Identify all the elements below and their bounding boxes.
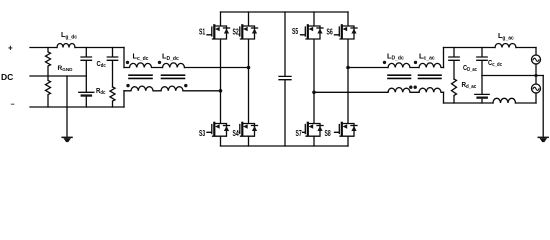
svg-text:Cdc: Cdc <box>97 61 107 69</box>
core bars LD_dc <box>162 75 185 78</box>
inductor Lc_dc top winding <box>124 63 163 68</box>
wire bottom rail left block <box>30 106 124 108</box>
capacitor polarized lower (left) <box>79 76 94 107</box>
svg-text:S3: S3 <box>199 129 206 138</box>
svg-text:S6: S6 <box>327 27 334 36</box>
transistor S2 <box>239 12 257 68</box>
wire bottom DC bus <box>221 145 349 147</box>
wire AC column top corner <box>535 48 537 56</box>
AC source 1 <box>532 55 541 64</box>
node dot junction leg S1 <box>219 89 223 93</box>
node dot junction leg S2 <box>247 66 251 70</box>
svg-text:Lc_dc: Lc_dc <box>133 52 149 62</box>
wire bridge input top <box>185 67 249 69</box>
capacitor Cdc <box>107 48 117 88</box>
inductor LD_dc (right choke) top winding <box>388 63 419 68</box>
svg-text:RGND: RGND <box>58 65 74 72</box>
wire ground stem left <box>66 76 68 136</box>
transistor S4 <box>239 68 257 147</box>
svg-text:LD_dc: LD_dc <box>387 51 404 61</box>
transistor S3 <box>207 91 230 146</box>
wire bridge output top <box>348 67 388 69</box>
svg-text:S2: S2 <box>233 27 240 36</box>
core bars Lc_ac <box>419 75 442 78</box>
svg-text:Rd_ac: Rd_ac <box>462 82 477 91</box>
svg-text:Rdc: Rdc <box>96 88 106 96</box>
resistor RGND <box>46 48 51 77</box>
svg-text:S4: S4 <box>233 129 240 138</box>
node dot Lc_dc top-left <box>126 61 129 64</box>
ground (left) <box>61 137 72 143</box>
inductor Lg_dc <box>57 44 75 48</box>
wire middle rail left block <box>30 75 86 77</box>
inductor Lc_ac top winding <box>419 63 444 68</box>
node dot Lc_ac top-left <box>414 61 417 64</box>
svg-text:CD_ac: CD_ac <box>463 65 477 73</box>
transistor S5 <box>301 12 324 92</box>
transistor S6 <box>335 12 358 68</box>
node dot mid rail / AC column <box>534 74 537 77</box>
wire top rail corner into choke <box>123 48 125 68</box>
wire bottom rail right block <box>444 102 537 104</box>
AC source 2 <box>532 84 541 93</box>
inductor bottom-right (unlabeled) <box>493 98 516 103</box>
svg-text:DC: DC <box>1 72 13 82</box>
wire mid rail to ground (right) <box>542 76 544 137</box>
svg-text:S1: S1 <box>199 27 206 36</box>
wire AC source 2 to bottom rail <box>535 93 537 103</box>
capacitor upper (bus cap branch, left) <box>81 48 92 77</box>
wire right choke to filter bottom corner <box>443 92 445 103</box>
wire middle rail right block <box>482 75 543 77</box>
node dot LD_dc top-left <box>158 61 161 64</box>
svg-text:S7: S7 <box>296 129 303 138</box>
node dot junction leg S6 output <box>346 66 350 70</box>
node dot LD_dc(right) top-left <box>383 61 386 64</box>
node dot bottom middle 2 <box>414 86 417 89</box>
capacitor polarized lower (right) <box>475 76 489 104</box>
svg-text:Cc_dc: Cc_dc <box>488 60 502 68</box>
svg-text:Lg_dc: Lg_dc <box>61 30 77 41</box>
wire bridge input bottom <box>183 90 221 92</box>
inductor right choke bottom winding 1 <box>388 88 419 93</box>
node dot Lc_dc bottom-left <box>126 84 129 87</box>
resistor Rdc <box>110 87 115 107</box>
inductor Lg_ac <box>495 44 516 48</box>
capacitor Cc upper (right) <box>477 48 487 76</box>
svg-text:S8: S8 <box>325 129 332 138</box>
wire bridge output bottom <box>314 91 388 93</box>
transistor S8 <box>335 68 358 147</box>
svg-text:+: + <box>8 44 13 53</box>
svg-text:−: − <box>11 102 15 109</box>
svg-text:Lg_ac: Lg_ac <box>498 31 514 42</box>
wire bottom rail corner into choke <box>123 91 125 107</box>
wire right choke to filter top corner <box>443 48 445 68</box>
ground (right) <box>538 137 549 143</box>
core bars LD right <box>388 75 411 78</box>
wire between sources <box>535 64 537 84</box>
wire top rail left block <box>30 47 124 49</box>
transistor S1 <box>207 12 230 91</box>
node dot bottom middle 1 <box>409 86 412 89</box>
capacitor DC-link <box>279 12 291 146</box>
svg-text:LD_dc: LD_dc <box>162 52 179 62</box>
wire top DC bus <box>221 11 349 13</box>
node dot junction leg S5 output <box>312 91 316 95</box>
resistor Rd_ac <box>452 79 457 103</box>
core bars Lc_dc <box>129 75 152 78</box>
capacitor CD_ac <box>449 48 459 80</box>
wire top rail right block <box>444 47 537 49</box>
inductor LD_dc bottom winding <box>161 86 183 91</box>
inductor Lc_dc bottom winding <box>124 86 161 91</box>
svg-text:Lc_ac: Lc_ac <box>419 52 435 62</box>
inductor LD_dc top winding <box>163 63 185 68</box>
inductor right choke bottom winding 2 <box>419 88 444 93</box>
transistor S7 <box>303 92 324 146</box>
svg-text:S5: S5 <box>292 27 299 36</box>
node dot LD_dc bottom-right <box>184 84 187 87</box>
resistor lower-left (unlabeled) <box>46 76 51 107</box>
